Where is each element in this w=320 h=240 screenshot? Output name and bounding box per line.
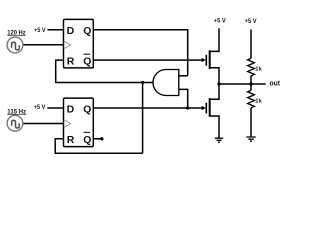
svg-text:D: D bbox=[67, 104, 75, 116]
svg-text:Q: Q bbox=[83, 25, 91, 37]
svg-text:Q: Q bbox=[83, 56, 91, 68]
svg-text:k: k bbox=[259, 98, 263, 104]
svg-text:Q: Q bbox=[83, 104, 91, 116]
svg-text:R: R bbox=[67, 134, 75, 146]
svg-text:+5 V: +5 V bbox=[214, 18, 226, 24]
svg-text:k: k bbox=[259, 67, 263, 73]
svg-text:R: R bbox=[67, 56, 75, 68]
svg-text:+5 V: +5 V bbox=[245, 19, 257, 25]
svg-text:Q: Q bbox=[83, 134, 91, 146]
svg-text:+5 V: +5 V bbox=[34, 105, 46, 111]
svg-text:D: D bbox=[67, 25, 75, 37]
svg-text:out: out bbox=[270, 80, 281, 87]
svg-text:+5 V: +5 V bbox=[34, 28, 46, 34]
